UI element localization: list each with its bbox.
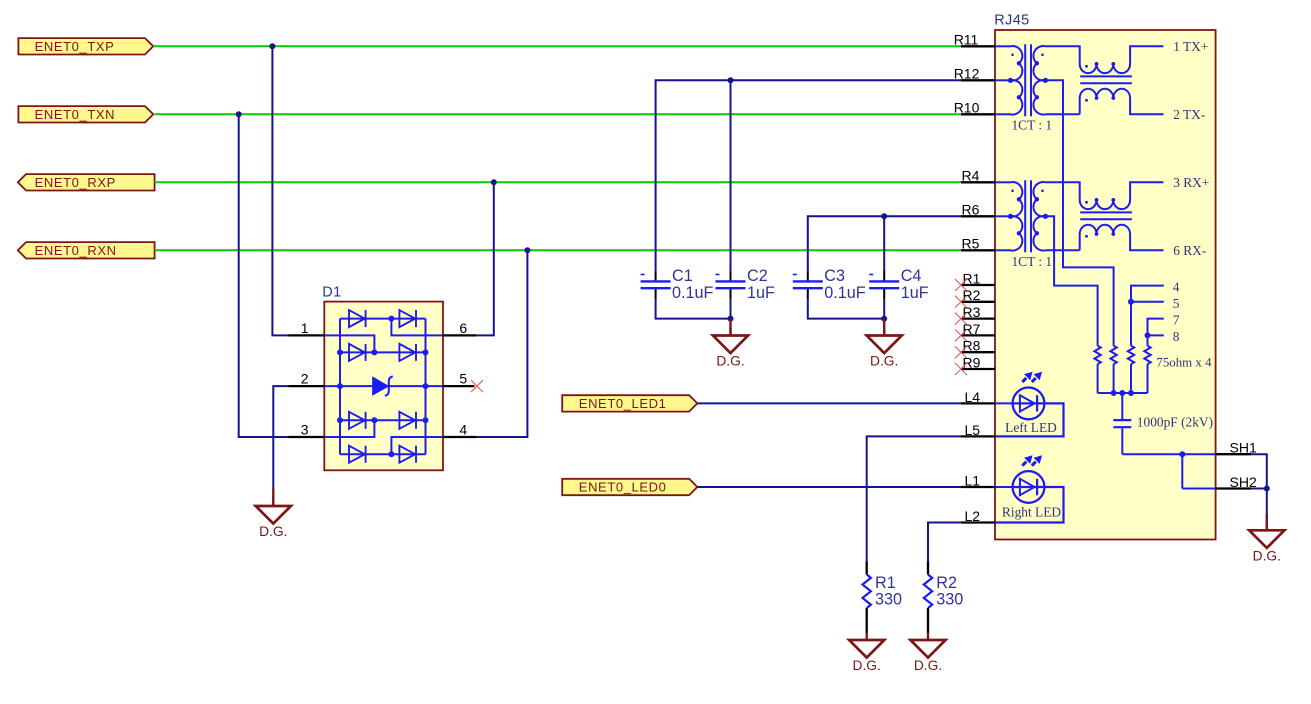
- svg-text:ENET0_LED0: ENET0_LED0: [579, 480, 667, 495]
- D1 right rail: [425, 319, 427, 455]
- wire ENET0_RXN to D1 pin 4: [476, 250, 527, 437]
- R1 bottom stub: [866, 608, 868, 633]
- svg-text:6: 6: [459, 320, 467, 336]
- svg-text:5: 5: [459, 371, 467, 387]
- svg-text:L2: L2: [965, 508, 981, 524]
- RJ45 pin R12 stub: [961, 79, 995, 81]
- wire to SH1: [1122, 453, 1215, 455]
- RJ45 pin R7 stub: [961, 334, 995, 336]
- junction on ENET0_RXN: [524, 247, 530, 253]
- D1 pin 4 internal wire: [391, 437, 443, 454]
- svg-text:R7: R7: [963, 321, 981, 337]
- junction on ENET0_RXP: [491, 179, 497, 185]
- D1 row A mid junction: [388, 316, 394, 322]
- svg-text:C2: C2: [747, 267, 768, 285]
- wire C2 top branch: [730, 80, 732, 272]
- svg-text:75ohm x 4: 75ohm x 4: [1156, 355, 1212, 369]
- svg-text:2 TX-: 2 TX-: [1173, 107, 1205, 122]
- RJ45 pin R8 stub: [961, 351, 995, 353]
- capacitor C4: [869, 271, 899, 298]
- svg-text:330: 330: [936, 590, 963, 608]
- wire net ENET0_RXN (green): [155, 249, 961, 251]
- svg-text:1uF: 1uF: [901, 284, 929, 302]
- D1 zener row junctions: [337, 383, 343, 389]
- svg-text:4: 4: [1173, 280, 1180, 295]
- diode array D1 body: [324, 302, 443, 471]
- wire to SH2: [1182, 488, 1215, 490]
- ground D.G. at C3/C4: [883, 319, 885, 336]
- D1 pin 5 no-connect X: [471, 380, 483, 392]
- svg-text:2: 2: [301, 371, 309, 387]
- D1 row D wire: [340, 453, 426, 455]
- D1 zener row wire: [324, 385, 443, 387]
- no-connect X on R9: [955, 363, 967, 375]
- junction C4 bottom: [881, 316, 887, 322]
- junction SH tie: [1179, 451, 1185, 457]
- D1 row C diode c1: [349, 412, 366, 429]
- svg-text:Left LED: Left LED: [1005, 420, 1057, 435]
- wire C3 bottom to C4 bottom: [808, 298, 884, 319]
- wire net ENET0_RXP (green): [155, 181, 961, 183]
- D1 pin 1 internal wire: [324, 335, 374, 352]
- RJ45 pin L2 stub: [961, 521, 995, 523]
- RJ45 pin R9 stub: [961, 368, 995, 370]
- wire SH to ground: [1266, 489, 1268, 517]
- 75ohm resistor 2: [1110, 346, 1116, 364]
- D1 row B wire: [340, 351, 426, 353]
- resistor R1: [863, 575, 871, 609]
- junction pin 8: [1145, 332, 1151, 338]
- D1 row B diode b1: [349, 344, 366, 361]
- RJ45 pin L4 stub: [961, 402, 995, 404]
- connector RJ45 body: [995, 30, 1216, 540]
- ground D.G. at SH: [1266, 514, 1268, 530]
- no-connect X on R2: [955, 296, 967, 308]
- no-connect X on R8: [955, 346, 967, 358]
- wire net ENET0_LED1 to RJ45 pin L4: [697, 402, 961, 404]
- 75ohm resistor 4: [1144, 346, 1150, 364]
- wire net ENET0_LED0 to RJ45 pin L1: [697, 486, 961, 488]
- svg-text:C3: C3: [824, 267, 845, 285]
- 75ohm resistor 3: [1128, 346, 1134, 364]
- capacitor C3: [793, 271, 823, 298]
- D1 row C wire: [340, 419, 426, 421]
- svg-text:1CT : 1: 1CT : 1: [1011, 117, 1052, 132]
- junction SH2: [1264, 486, 1270, 492]
- junction C4 top: [881, 213, 887, 219]
- wire RJ45 pin L2 to R2: [928, 523, 961, 562]
- RJ45 pin R4 stub: [961, 181, 995, 183]
- svg-text:R1: R1: [963, 270, 981, 286]
- wire C2 bottom: [730, 298, 732, 319]
- D1 row D mid junction: [388, 451, 394, 457]
- svg-text:L5: L5: [965, 422, 981, 438]
- 75ohm resistor 1: [1094, 346, 1100, 364]
- D1 pin 4 stub: [443, 436, 476, 438]
- svg-text:R10: R10: [954, 100, 980, 116]
- svg-text:ENET0_RXN: ENET0_RXN: [35, 243, 117, 258]
- svg-text:1 TX+: 1 TX+: [1173, 39, 1208, 54]
- net label ENET0_TXN: [18, 106, 153, 122]
- bus junctions: [1111, 390, 1117, 396]
- wire RJ45 pin 7 to 75ohm resistor 4: [1148, 319, 1164, 346]
- junction on ENET0_TXP: [269, 43, 275, 49]
- D1 row A diode a2: [399, 310, 416, 327]
- resistor R1 top stub: [866, 562, 868, 575]
- D1 row A wire: [340, 318, 426, 320]
- D1 left rail: [339, 319, 341, 455]
- wire RJ45 pin 5: [1131, 301, 1164, 303]
- wire D1 pin 2 to ground: [273, 386, 288, 489]
- D1 pin 6 internal wire: [391, 319, 443, 336]
- wire net ENET0_TXP (green): [153, 45, 961, 47]
- 75ohm resistor bottom wires: [1097, 364, 1099, 393]
- RJ45 pin R10 stub: [961, 113, 995, 115]
- svg-text:5: 5: [1173, 296, 1180, 311]
- junction C2 top: [728, 77, 734, 83]
- svg-text:D1: D1: [322, 285, 341, 301]
- wire RJ45 pin 4 to 75ohm resistor 3: [1131, 286, 1164, 346]
- svg-text:0.1uF: 0.1uF: [824, 284, 866, 302]
- wire RJ45 pin L5 to R1: [867, 436, 961, 561]
- wire C3/C4 to RJ45 pin R6: [808, 216, 961, 272]
- svg-text:R5: R5: [962, 236, 980, 252]
- LED Left (inside RJ45): [995, 373, 1064, 437]
- capacitor 1000pF (2kV): [1113, 393, 1131, 454]
- RJ45 pin L5 stub: [961, 435, 995, 437]
- svg-text:SH2: SH2: [1230, 474, 1257, 490]
- RJ45 pin SH1 stub: [1216, 453, 1252, 455]
- wire net ENET0_TXN (green): [155, 113, 961, 115]
- net label ENET0_LED0: [562, 479, 697, 495]
- wire ENET0_TXN to D1 pin 3: [239, 114, 289, 437]
- 75ohm common bus wire: [1098, 392, 1148, 394]
- svg-text:1uF: 1uF: [747, 284, 775, 302]
- RJ45 pin R2 stub: [961, 301, 995, 303]
- D1 pin 3 stub: [289, 436, 325, 438]
- svg-text:R12: R12: [954, 66, 980, 82]
- junction C2 bottom: [728, 316, 734, 322]
- D1 row D diode d2: [399, 446, 416, 463]
- wire C4 bottom: [883, 298, 885, 319]
- net label ENET0_LED1: [562, 395, 697, 411]
- D1 pin 2 stub: [289, 385, 325, 387]
- wire C1/C2 to RJ45 pin R12: [656, 80, 961, 272]
- svg-text:330: 330: [875, 590, 902, 608]
- D1 row C junctions: [337, 417, 343, 423]
- D1 pin 5 stub: [443, 385, 475, 387]
- wire ENET0_TXP to D1 pin 1: [272, 46, 288, 335]
- RJ45 RX isolation transformer and choke: [995, 180, 1164, 252]
- RJ45 pin R11 stub: [961, 45, 995, 47]
- RJ45 pin R3 stub: [961, 317, 995, 319]
- svg-text:1000pF (2kV): 1000pF (2kV): [1137, 414, 1213, 429]
- RJ45 TX isolation transformer and choke: [995, 44, 1164, 116]
- junction on ENET0_TXN: [236, 111, 242, 117]
- ground D.G. at D1 pin 2: [272, 489, 274, 507]
- RJ45 pin R5 stub: [961, 249, 995, 251]
- wire SH1 to SH2 tie: [1181, 454, 1183, 488]
- svg-text:1CT : 1: 1CT : 1: [1011, 254, 1052, 269]
- svg-text:R11: R11: [954, 32, 979, 48]
- RJ45 pin L1 stub: [961, 486, 995, 488]
- svg-text:ENET0_LED1: ENET0_LED1: [579, 396, 667, 411]
- D1 row B diode b2: [399, 344, 416, 361]
- net label ENET0_RXN: [18, 242, 155, 258]
- no-connect X on R7: [955, 329, 967, 341]
- D1 row D diode d1: [349, 446, 366, 463]
- svg-text:ENET0_TXP: ENET0_TXP: [35, 39, 115, 54]
- net label ENET0_TXP: [18, 38, 153, 54]
- D1 TVS zener diode: [373, 376, 393, 395]
- svg-text:R9: R9: [963, 354, 981, 370]
- svg-text:L4: L4: [965, 389, 981, 405]
- resistor R2: [924, 575, 932, 609]
- no-connect X on R1: [955, 279, 967, 291]
- capacitor C2: [716, 271, 746, 298]
- ground D.G. at R2: [910, 633, 945, 674]
- svg-text:R6: R6: [962, 202, 980, 218]
- D1 row C diode c2: [399, 412, 416, 429]
- svg-text:C1: C1: [672, 267, 693, 285]
- wire C1 bottom to C2 bottom: [656, 298, 731, 319]
- wire SH1 to SH2 external: [1251, 454, 1267, 488]
- svg-text:C4: C4: [901, 267, 922, 285]
- junction pin 5: [1128, 299, 1134, 305]
- wire TX center tap to 75ohm resistor 2: [1046, 80, 1114, 345]
- wire RX center tap to 75ohm resistor 1: [1046, 216, 1098, 345]
- svg-text:R2: R2: [963, 287, 981, 303]
- svg-text:SH1: SH1: [1230, 440, 1257, 456]
- D1 pin 3 internal wire: [324, 420, 374, 437]
- ground D.G. at R1: [849, 633, 884, 674]
- capacitor C1: [641, 271, 671, 298]
- svg-text:1: 1: [301, 320, 309, 336]
- D1 pin 1 stub: [289, 334, 325, 336]
- ground D.G. at C1/C2: [729, 319, 731, 336]
- svg-text:R3: R3: [963, 304, 981, 320]
- svg-text:0.1uF: 0.1uF: [672, 284, 714, 302]
- svg-text:3 RX+: 3 RX+: [1173, 175, 1209, 190]
- svg-text:L1: L1: [965, 472, 981, 488]
- D1 row B junctions: [337, 349, 343, 355]
- RJ45 pin R1 stub: [961, 284, 995, 286]
- svg-text:3: 3: [301, 422, 309, 438]
- net label ENET0_RXP: [18, 174, 155, 190]
- svg-text:7: 7: [1173, 312, 1180, 327]
- svg-text:R4: R4: [962, 168, 980, 184]
- wire RJ45 pin 8: [1148, 334, 1164, 336]
- wire SH2 external: [1251, 488, 1267, 490]
- resistor R2 top stub: [927, 562, 929, 575]
- svg-text:R8: R8: [963, 338, 981, 354]
- no-connect X on R3: [955, 313, 967, 325]
- D1 row A diode a1: [349, 310, 366, 327]
- wire ENET0_RXP to D1 pin 6: [476, 182, 494, 335]
- svg-text:ENET0_RXP: ENET0_RXP: [35, 175, 116, 190]
- RJ45 pin R6 stub: [961, 215, 995, 217]
- svg-text:8: 8: [1173, 329, 1180, 344]
- wire C4 top branch: [883, 216, 885, 272]
- D1 pin 6 stub: [443, 334, 476, 336]
- R2 bottom stub: [927, 608, 929, 633]
- svg-text:6 RX-: 6 RX-: [1173, 243, 1206, 258]
- svg-text:ENET0_TXN: ENET0_TXN: [35, 107, 116, 122]
- svg-text:4: 4: [459, 422, 467, 438]
- RJ45 pin SH2 stub: [1216, 487, 1252, 489]
- svg-text:RJ45: RJ45: [994, 13, 1029, 29]
- svg-text:Right LED: Right LED: [1002, 505, 1061, 520]
- LED Right (inside RJ45): [995, 456, 1064, 522]
